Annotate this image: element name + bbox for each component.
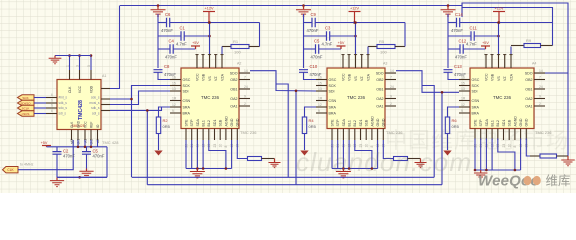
wire rail3 [158, 48, 170, 50]
svg-text:sdi_s: sdi_s [92, 112, 100, 116]
wire pin5 link [367, 47, 369, 55]
wire U1-SRA link [110, 107, 170, 110]
svg-text:VZA: VZA [366, 73, 370, 81]
svg-text:C6: C6 [165, 12, 171, 17]
wire VS supply [355, 23, 357, 55]
wire U1 pin drop [90, 140, 92, 147]
svg-text:sdi_s: sdi_s [59, 112, 67, 116]
wire U4 bottom pins to gnd rail [474, 139, 476, 171]
svg-text:CLK: CLK [68, 86, 72, 93]
svg-text:9: 9 [318, 109, 320, 113]
resistor R7 [237, 140, 247, 159]
svg-text:BRA: BRA [472, 112, 480, 116]
svg-text:R2: R2 [163, 118, 169, 123]
svg-text:13: 13 [318, 87, 322, 91]
svg-text:4.7nF: 4.7nF [322, 42, 333, 47]
wire jog pins 5-6 [355, 140, 372, 169]
svg-text:STP: STP [336, 119, 340, 127]
svg-text:VS: VS [354, 76, 358, 81]
svg-text:8: 8 [224, 146, 228, 148]
svg-text:CLK: CLK [70, 121, 74, 128]
wire rail3 [448, 48, 460, 50]
svg-text:1: 1 [66, 65, 70, 67]
ground cluster GND [342, 169, 344, 172]
svg-text:C3: C3 [325, 26, 331, 31]
resistor R5 [368, 46, 377, 48]
svg-text:OB2: OB2 [525, 78, 532, 82]
wire U4.SDO return [545, 72, 568, 74]
svg-text:BRA: BRA [329, 112, 337, 116]
ground C5 GND [86, 155, 88, 171]
svg-text:OB1: OB1 [230, 88, 237, 92]
svg-text:SCK: SCK [183, 84, 191, 88]
svg-text:SDI: SDI [472, 90, 478, 94]
svg-text:24: 24 [390, 85, 394, 89]
svg-text:16: 16 [461, 76, 465, 80]
svg-text:SD1: SD1 [359, 120, 363, 127]
svg-text:+12V: +12V [205, 7, 214, 11]
svg-text:CSN: CSN [472, 99, 480, 103]
svg-text:SCK: SCK [329, 84, 337, 88]
wire rail3 [304, 48, 316, 50]
svg-text:CSN: CSN [329, 99, 337, 103]
U3 top pins VCC VBB VS VZ VZA [342, 54, 344, 68]
svg-text:16: 16 [318, 76, 322, 80]
svg-text:sdk_s: sdk_s [91, 106, 100, 110]
svg-text:TMC 428: TMC 428 [102, 140, 119, 145]
capacitor C5 [86, 147, 88, 151]
svg-text:BL1: BL1 [202, 120, 206, 126]
svg-text:100: 100 [380, 50, 387, 55]
wire rail2 [448, 35, 471, 37]
svg-text:470nF: 470nF [63, 154, 75, 159]
svg-text:470nF: 470nF [307, 28, 319, 33]
U4 right pins SDO OB2 OB1 OA2 OA1 [534, 72, 545, 74]
svg-text:A3: A3 [383, 62, 387, 66]
svg-text:OA1: OA1 [230, 105, 237, 109]
wire +5V rail [47, 146, 108, 148]
wire bottom bus B [147, 184, 442, 186]
resistor R8 [383, 140, 393, 159]
svg-text:VS: VS [497, 76, 501, 81]
svg-text:SDA: SDA [485, 119, 489, 127]
svg-text:1R: 1R [461, 97, 466, 101]
wire sense to gnd [158, 134, 160, 151]
svg-text:OSC: OSC [329, 78, 337, 82]
wire U4 gnd rail [475, 169, 521, 171]
svg-text:A4: A4 [532, 62, 536, 66]
svg-text:6: 6 [51, 99, 53, 103]
svg-text:470nF: 470nF [451, 28, 463, 33]
wire left vertical C9 [303, 14, 305, 68]
svg-text:STE: STE [473, 119, 477, 127]
svg-text:16: 16 [172, 76, 176, 80]
svg-text:nSCS: nSCS [22, 112, 30, 116]
wire rail drop right [106, 147, 108, 178]
wire U3.SDO chain to U4.SDI [396, 71, 459, 93]
wire rail3 right [319, 48, 341, 50]
svg-text:S1B: S1B [219, 119, 223, 126]
wire U1 pin drop [77, 140, 79, 147]
ports SPI left [18, 95, 35, 100]
capacitor C2 [56, 147, 58, 151]
svg-text:BL2: BL2 [207, 120, 211, 126]
svg-text:+5V: +5V [482, 41, 489, 45]
wire gnd rail [332, 168, 378, 170]
capacitor C11 [471, 31, 474, 41]
svg-text:9: 9 [244, 95, 246, 99]
svg-text:S1B: S1B [508, 119, 512, 126]
svg-text:TMC 236: TMC 236 [201, 95, 220, 100]
svg-text:4.7nF: 4.7nF [176, 42, 187, 47]
svg-text:OA1: OA1 [376, 105, 383, 109]
wire drop B2 [441, 92, 443, 184]
svg-text:sdo_s: sdo_s [91, 96, 100, 100]
capacitor C4 [170, 44, 173, 54]
svg-text:SDO: SDO [230, 72, 238, 76]
capacitor C5 [316, 44, 319, 54]
wire rail1 right [315, 22, 405, 24]
svg-text:7: 7 [390, 76, 392, 80]
svg-text:STE: STE [330, 119, 334, 127]
wire U4 pin9 drop [520, 139, 522, 171]
svg-text:BL1: BL1 [491, 120, 495, 126]
wire CLK to U1 [18, 140, 73, 170]
svg-text:OA2: OA2 [230, 97, 237, 101]
svg-text:470nF: 470nF [165, 55, 177, 60]
wire rail2 [304, 35, 327, 37]
svg-text:GND: GND [519, 118, 523, 126]
svg-text:SD1: SD1 [213, 120, 217, 127]
svg-text:STE: STE [184, 119, 188, 127]
U4 top pins VCC VBB VS VZ VZA [485, 54, 487, 68]
resistor R1 [222, 46, 231, 48]
U1 top pins [69, 70, 71, 80]
svg-text:BL1: BL1 [348, 120, 352, 126]
U4 bottom pins [474, 129, 476, 141]
ground resistor GND [420, 159, 422, 163]
U1 bottom pins [71, 130, 73, 141]
svg-text:R5: R5 [379, 39, 385, 44]
wire osc cap to OSC pin [304, 73, 317, 80]
ground GND-C14 [447, 4, 450, 7]
svg-text:A1: A1 [102, 74, 106, 78]
svg-text:TMC 236: TMC 236 [347, 95, 366, 100]
svg-text:维库: 维库 [546, 173, 571, 188]
capacitor C1 [181, 31, 184, 41]
svg-text:+12V: +12V [495, 7, 504, 11]
ground sense GND triangle [300, 151, 308, 156]
svg-text:6: 6 [51, 109, 53, 113]
svg-text:R9: R9 [526, 38, 532, 43]
svg-text:6: 6 [51, 104, 53, 108]
wire rail2 right [474, 35, 498, 37]
svg-text:VSB: VSB [347, 73, 351, 81]
svg-text:100: 100 [234, 50, 241, 55]
svg-text:+5V: +5V [338, 41, 345, 45]
wire U1-SDI staircase [110, 91, 170, 105]
U2 right pins SDO OB2 OB1 OA2 OA1 [239, 72, 250, 74]
svg-text:#int_s: #int_s [59, 96, 68, 100]
U4 left pins OSC SCK SDI CSN SRA BRA [459, 79, 470, 81]
svg-text:15: 15 [461, 82, 465, 86]
capacitor C3 [327, 31, 330, 41]
svg-text:C12: C12 [459, 39, 467, 44]
svg-text:9: 9 [461, 109, 463, 113]
svg-text:VCC: VCC [78, 85, 82, 93]
wire rail1 right [170, 22, 260, 24]
op-amp U1 TMC428 body [57, 80, 101, 130]
svg-text:sdk_s: sdk_s [59, 101, 68, 105]
svg-text:2: 2 [244, 102, 246, 106]
wire pin5 link [510, 47, 512, 55]
svg-text:C11: C11 [470, 26, 478, 31]
wire drop B1 [295, 91, 297, 185]
resistor R2 sense [159, 107, 171, 117]
wire +12V rail [158, 22, 167, 24]
svg-text:9: 9 [539, 95, 541, 99]
svg-text:470nF: 470nF [93, 154, 105, 159]
svg-text:7: 7 [539, 76, 541, 80]
ground sense GND triangle [443, 151, 451, 156]
svg-text:1R: 1R [172, 97, 177, 101]
svg-text:+12V: +12V [350, 7, 359, 11]
wire U1 top rail [55, 55, 91, 57]
svg-text:2: 2 [390, 102, 392, 106]
ground R10 GND [567, 156, 569, 160]
svg-text:C4: C4 [169, 39, 175, 44]
ground resistor GND [274, 159, 276, 163]
svg-text:SDI: SDI [329, 90, 335, 94]
svg-text:R1: R1 [233, 39, 239, 44]
svg-text:R6: R6 [452, 118, 458, 123]
svg-text:1R: 1R [318, 97, 323, 101]
svg-text:GND: GND [382, 118, 386, 126]
capacitor C12 [460, 44, 463, 54]
svg-text:GND: GND [76, 120, 80, 128]
svg-text:7: 7 [244, 76, 246, 80]
wire VS supply [498, 23, 500, 55]
wire rail2 right [184, 35, 209, 37]
ground bottom-left GND [56, 177, 58, 180]
wire VS supply [209, 23, 211, 55]
svg-text:TMC 236: TMC 236 [493, 95, 512, 100]
svg-text:OB2: OB2 [376, 78, 383, 82]
ground GND-C6 [157, 4, 160, 7]
svg-text:SDO: SDO [525, 72, 533, 76]
svg-text:AGND: AGND [513, 116, 517, 127]
wire bottom pins to gnd rail [185, 140, 187, 169]
wire bottom pins to gnd rail [331, 140, 333, 169]
svg-text:470nF: 470nF [161, 28, 173, 33]
svg-text:C13: C13 [454, 64, 462, 69]
resistor R6 sense [448, 107, 460, 117]
port CLK [3, 167, 19, 173]
svg-text:TMC428: TMC428 [78, 100, 84, 120]
svg-text:470nF: 470nF [311, 55, 323, 60]
svg-text:VZA: VZA [509, 73, 513, 81]
op-amp U3 TMC236 body [327, 68, 385, 129]
ground U4 cluster GND [480, 170, 482, 173]
svg-text:STP: STP [190, 119, 194, 127]
wire rail1 right [460, 22, 553, 24]
wire left vertical C14 [447, 14, 449, 68]
U3 left pins OSC SCK SDI CSN SRA BRA [316, 79, 327, 81]
svg-text:+5V: +5V [41, 141, 48, 145]
svg-text:470nF: 470nF [455, 55, 467, 60]
svg-text:OSC: OSC [472, 78, 480, 82]
wire U2.SDO chain to U3.SDI [250, 71, 316, 91]
svg-text:C14: C14 [455, 12, 463, 17]
svg-text:REF: REF [89, 122, 93, 128]
resistor R9 [511, 45, 524, 47]
svg-text:10: 10 [219, 144, 223, 148]
svg-text:SDI: SDI [183, 90, 189, 94]
svg-text:0R5: 0R5 [163, 124, 171, 129]
resistor R4 sense [305, 107, 317, 117]
svg-text:STP: STP [479, 119, 483, 127]
wire rail2 right [330, 35, 356, 37]
svg-text:VZ: VZ [503, 76, 507, 81]
svg-text:BL2: BL2 [496, 120, 500, 126]
svg-text:SDA: SDA [196, 119, 200, 127]
wire osc cap to OSC pin [158, 73, 170, 80]
wire osc cap to OSC pin [448, 73, 459, 80]
svg-text:VZA: VZA [220, 73, 224, 81]
svg-text:0R5: 0R5 [309, 124, 317, 129]
capacitor C10 [299, 70, 308, 73]
svg-text:4.7nF: 4.7nF [466, 42, 477, 47]
ground sense GND triangle [154, 151, 162, 156]
U3 bottom pins [331, 129, 333, 141]
wire gnd rail [186, 168, 232, 170]
svg-text:3: 3 [76, 65, 80, 67]
wire U1-SCK staircase [110, 86, 170, 100]
svg-text:C8: C8 [164, 64, 170, 69]
svg-text:+5V: +5V [192, 41, 199, 45]
svg-text:A2: A2 [237, 62, 241, 66]
svg-text:CLK: CLK [7, 168, 14, 172]
svg-text:OB1: OB1 [525, 88, 532, 92]
svg-text:GND: GND [376, 118, 380, 126]
capacitor C8 [154, 70, 163, 73]
U2 top pins VCC VBB VS VZ VZA [196, 54, 198, 68]
svg-text:TMC 236: TMC 236 [240, 130, 257, 135]
wire vertical x147 to bottom [146, 110, 148, 184]
svg-text:AGND: AGND [224, 116, 228, 127]
wire pin9 drop [231, 140, 233, 169]
svg-text:sdo_s: sdo_s [59, 106, 68, 110]
svg-text:cluandon.com: cluandon.com [296, 147, 472, 177]
svg-text:24: 24 [244, 85, 248, 89]
svg-text:13: 13 [172, 87, 176, 91]
svg-text:GND: GND [230, 118, 234, 126]
wire pin9 drop [377, 140, 379, 169]
resistor R10 [526, 139, 530, 157]
svg-text:VCC: VCC [484, 73, 488, 81]
svg-text:OSC: OSC [183, 78, 191, 82]
wire vertical x131 to bottom [131, 86, 133, 178]
svg-text:VZ: VZ [360, 76, 364, 81]
wire rail3 right [463, 48, 485, 50]
op-amp U4 TMC236 body [470, 68, 534, 129]
svg-text:23: 23 [213, 144, 217, 148]
ground GND-C9 [302, 4, 305, 7]
svg-text:VCC: VCC [83, 121, 87, 128]
svg-text:14: 14 [390, 69, 394, 73]
svg-text:SD1: SD1 [502, 120, 506, 127]
svg-text:12: 12 [461, 103, 465, 107]
svg-text:BL2: BL2 [353, 120, 357, 126]
wire left vertical C6 [157, 14, 159, 68]
wire pin5 link [221, 47, 223, 55]
capacitor C14 [457, 18, 460, 28]
svg-text:OA2: OA2 [525, 97, 532, 101]
svg-text:2: 2 [539, 102, 541, 106]
svg-text:OB2: OB2 [230, 78, 237, 82]
wire bus right lower [462, 6, 553, 46]
U2 left pins OSC SCK SDI CSN SRA BRA [170, 79, 181, 81]
svg-text:SCLK: SCLK [22, 107, 30, 111]
svg-text:C9: C9 [311, 12, 317, 17]
wire sense to gnd [447, 134, 449, 151]
wire bottom bus A [57, 176, 107, 178]
wire GND top bus [120, 5, 462, 7]
svg-text:SRA: SRA [183, 106, 191, 110]
wire bottom-left gnd rail [57, 176, 107, 178]
svg-text:VS: VS [208, 76, 212, 81]
svg-text:C10: C10 [310, 64, 318, 69]
svg-text:SDO: SDO [376, 72, 384, 76]
U1 left pins [46, 97, 57, 99]
wire sense to gnd [304, 134, 306, 151]
svg-text:14: 14 [244, 69, 248, 73]
svg-text:12: 12 [172, 103, 176, 107]
wire rail2 [158, 35, 181, 37]
svg-text:CSN: CSN [183, 99, 191, 103]
svg-text:14: 14 [539, 69, 543, 73]
svg-text:VDD: VDD [89, 85, 93, 93]
wire drop A1 [276, 84, 288, 177]
capacitor C9 [312, 18, 315, 28]
svg-text:12: 12 [318, 103, 322, 107]
svg-text:C1: C1 [180, 26, 186, 31]
wire GND bus right upper [462, 3, 568, 156]
svg-text:GND: GND [236, 118, 240, 126]
svg-text:9: 9 [172, 109, 174, 113]
op-amp U2 TMC236 body [181, 68, 239, 129]
ground U1 top GND [54, 56, 56, 58]
svg-text:15: 15 [318, 82, 322, 86]
svg-text:mosi_s: mosi_s [89, 101, 100, 105]
svg-text:SRA: SRA [472, 106, 480, 110]
svg-text:VCC: VCC [341, 73, 345, 81]
svg-text:BRA: BRA [183, 112, 191, 116]
wire U1 pin drop [84, 140, 86, 147]
svg-text:SRA: SRA [329, 106, 337, 110]
svg-text:OB1: OB1 [376, 88, 383, 92]
svg-text:VCC: VCC [195, 73, 199, 81]
svg-text:6: 6 [51, 93, 53, 97]
svg-text:VSB: VSB [490, 73, 494, 81]
svg-text:R4: R4 [309, 118, 315, 123]
ground cluster GND [196, 169, 198, 172]
U3 right pins SDO OB2 OB1 OA2 OA1 [385, 72, 396, 74]
svg-text:15: 15 [172, 82, 176, 86]
wire stub node n1 [461, 8, 463, 18]
wire rail1 drop [404, 23, 406, 47]
svg-text:AGND: AGND [370, 116, 374, 127]
